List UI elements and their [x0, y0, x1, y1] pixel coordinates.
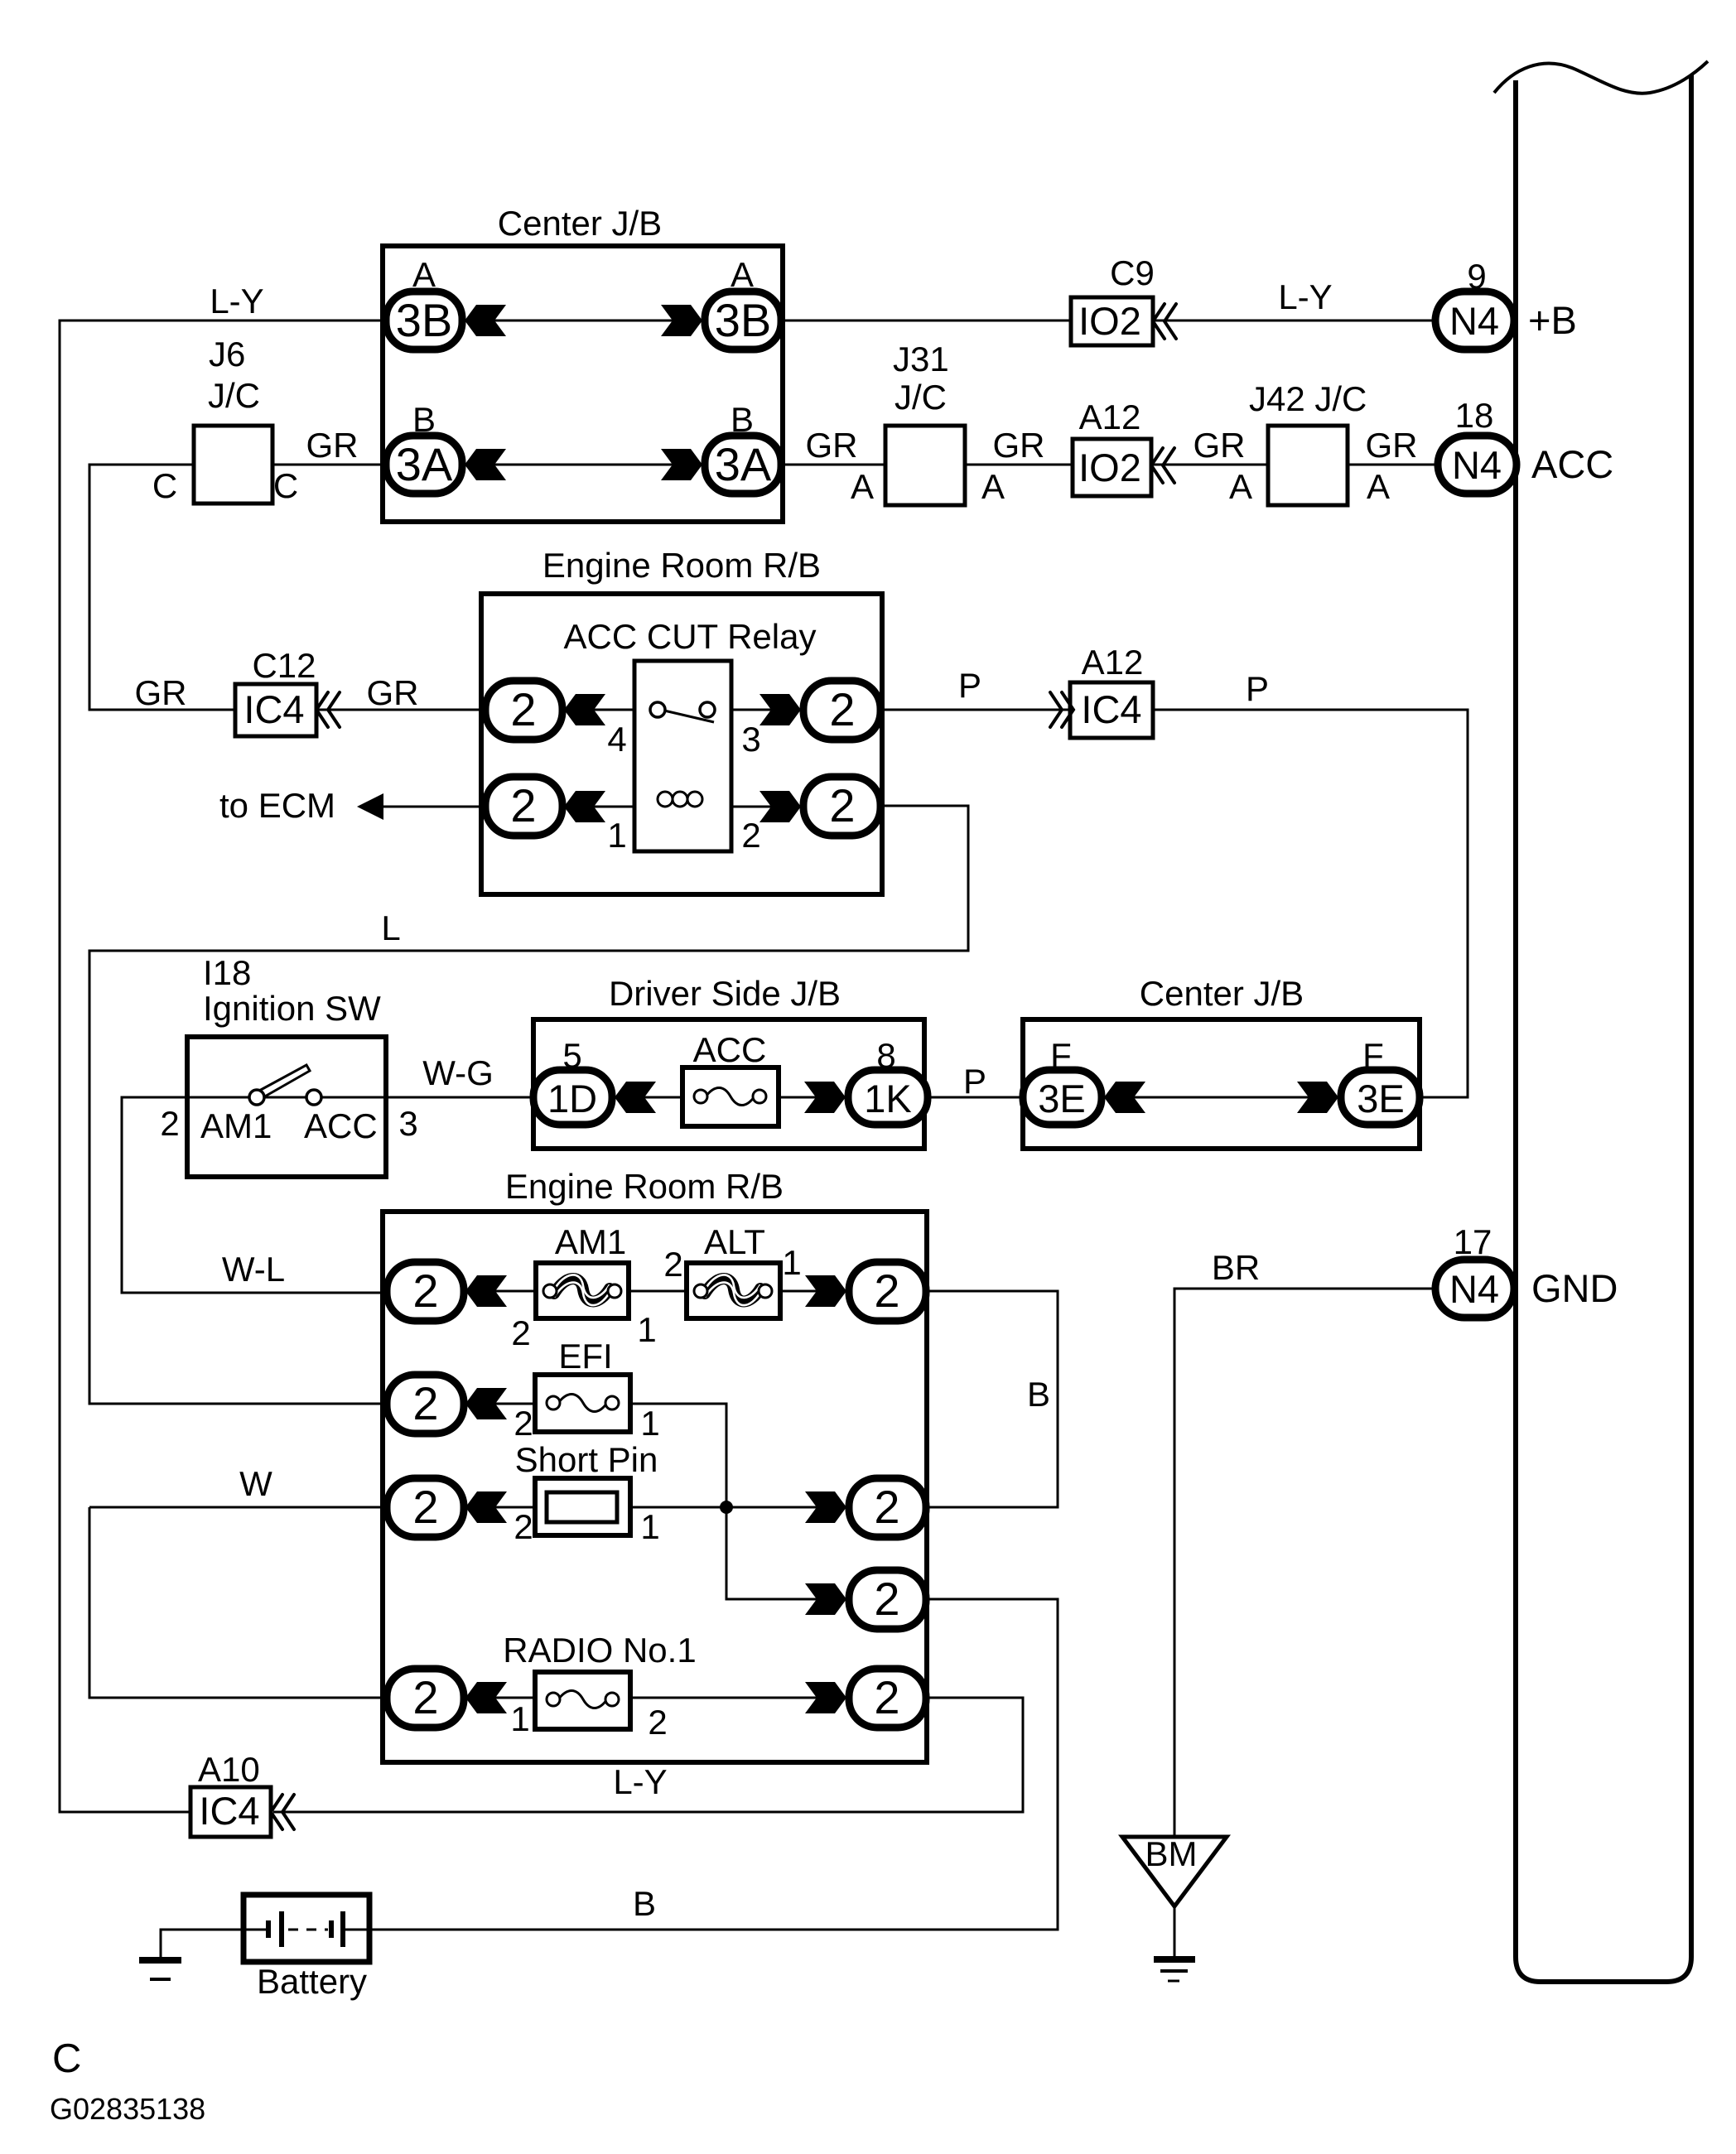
- svg-text:J31: J31: [893, 340, 949, 378]
- svg-text:J/C: J/C: [208, 376, 260, 415]
- svg-text:2: 2: [741, 816, 760, 855]
- svg-text:A12: A12: [1082, 643, 1144, 682]
- svg-text:GR: GR: [306, 426, 359, 465]
- svg-text:C12: C12: [252, 646, 316, 685]
- svg-text:17: 17: [1454, 1222, 1492, 1261]
- svg-text:B: B: [731, 400, 754, 439]
- svg-text:2: 2: [510, 683, 536, 735]
- svg-text:3: 3: [398, 1104, 417, 1143]
- svg-text:ALT: ALT: [704, 1222, 765, 1261]
- svg-text:2: 2: [648, 1703, 667, 1742]
- svg-text:C: C: [273, 466, 298, 505]
- svg-text:1: 1: [510, 1699, 529, 1738]
- svg-text:W-G: W-G: [422, 1053, 494, 1092]
- svg-text:C: C: [152, 466, 177, 505]
- svg-text:A: A: [981, 467, 1005, 506]
- svg-text:3B: 3B: [715, 294, 772, 346]
- svg-text:IO2: IO2: [1078, 446, 1141, 489]
- svg-text:4: 4: [607, 720, 626, 759]
- svg-text:+B: +B: [1528, 298, 1577, 342]
- svg-text:to ECM: to ECM: [219, 786, 335, 825]
- svg-text:1: 1: [637, 1310, 656, 1349]
- svg-text:Ignition SW: Ignition SW: [203, 989, 381, 1028]
- svg-text:1: 1: [640, 1404, 659, 1443]
- svg-text:P: P: [963, 1062, 986, 1101]
- svg-text:2: 2: [829, 683, 855, 735]
- svg-text:N4: N4: [1449, 299, 1499, 343]
- svg-text:3: 3: [741, 720, 760, 759]
- svg-text:IO2: IO2: [1078, 299, 1141, 343]
- svg-text:BM: BM: [1145, 1834, 1198, 1873]
- svg-text:AM1: AM1: [555, 1222, 626, 1261]
- svg-text:Battery: Battery: [257, 1962, 367, 2001]
- svg-text:BR: BR: [1212, 1248, 1260, 1287]
- svg-text:GR: GR: [993, 426, 1045, 465]
- svg-text:ACC: ACC: [304, 1106, 378, 1145]
- svg-text:L-Y: L-Y: [210, 282, 263, 320]
- svg-text:2: 2: [511, 1313, 530, 1352]
- svg-text:J42 J/C: J42 J/C: [1249, 379, 1367, 418]
- svg-text:A: A: [731, 255, 754, 294]
- svg-text:1K: 1K: [864, 1077, 912, 1120]
- svg-text:Driver Side J/B: Driver Side J/B: [609, 974, 841, 1013]
- svg-text:1: 1: [782, 1243, 801, 1282]
- svg-text:GR: GR: [1193, 426, 1246, 465]
- svg-text:2: 2: [874, 1265, 899, 1317]
- svg-text:1: 1: [607, 816, 626, 855]
- svg-text:Center J/B: Center J/B: [498, 204, 662, 243]
- svg-text:A12: A12: [1079, 398, 1141, 436]
- svg-text:2: 2: [412, 1377, 438, 1429]
- svg-text:P: P: [1246, 669, 1269, 708]
- svg-text:GND: GND: [1531, 1266, 1618, 1310]
- svg-text:2: 2: [663, 1245, 682, 1284]
- svg-text:P: P: [958, 666, 981, 705]
- svg-text:2: 2: [514, 1507, 533, 1546]
- svg-text:2: 2: [510, 779, 536, 831]
- svg-text:GR: GR: [1366, 426, 1418, 465]
- svg-text:ACC: ACC: [1531, 442, 1613, 486]
- svg-text:Engine Room R/B: Engine Room R/B: [542, 546, 821, 585]
- svg-text:IC4: IC4: [1081, 687, 1141, 731]
- svg-text:B: B: [1027, 1375, 1050, 1414]
- svg-text:IC4: IC4: [244, 687, 304, 731]
- svg-text:1: 1: [640, 1507, 659, 1546]
- svg-text:W: W: [239, 1464, 272, 1503]
- svg-text:B: B: [412, 400, 436, 439]
- svg-text:A: A: [1367, 467, 1390, 506]
- svg-text:2: 2: [874, 1481, 899, 1533]
- svg-text:G02835138: G02835138: [50, 2092, 205, 2126]
- svg-text:L-Y: L-Y: [1278, 277, 1332, 316]
- svg-text:2: 2: [514, 1404, 533, 1443]
- svg-text:A: A: [1229, 467, 1252, 506]
- svg-text:GR: GR: [135, 673, 187, 712]
- svg-text:N4: N4: [1449, 1267, 1499, 1311]
- svg-text:Engine Room R/B: Engine Room R/B: [505, 1167, 784, 1206]
- svg-text:3A: 3A: [396, 438, 453, 490]
- svg-text:2: 2: [874, 1671, 899, 1723]
- svg-text:A: A: [851, 467, 874, 506]
- svg-text:2: 2: [829, 779, 855, 831]
- svg-text:C: C: [52, 2036, 81, 2081]
- svg-text:GR: GR: [367, 673, 419, 712]
- svg-text:1D: 1D: [547, 1077, 597, 1120]
- svg-text:2: 2: [412, 1481, 438, 1533]
- svg-text:18: 18: [1455, 396, 1494, 435]
- svg-text:2: 2: [412, 1671, 438, 1723]
- svg-text:3E: 3E: [1038, 1077, 1086, 1120]
- svg-text:GR: GR: [806, 426, 858, 465]
- svg-text:J/C: J/C: [895, 378, 947, 417]
- svg-text:Center J/B: Center J/B: [1140, 974, 1304, 1013]
- svg-text:IC4: IC4: [199, 1789, 259, 1833]
- svg-text:3E: 3E: [1357, 1077, 1405, 1120]
- svg-text:Short Pin: Short Pin: [515, 1440, 658, 1479]
- svg-text:RADIO No.1: RADIO No.1: [503, 1631, 696, 1670]
- svg-text:I18: I18: [203, 953, 251, 992]
- svg-text:L: L: [381, 908, 400, 947]
- svg-text:W-L: W-L: [222, 1250, 285, 1289]
- svg-text:B: B: [633, 1884, 656, 1923]
- svg-text:3A: 3A: [715, 438, 772, 490]
- svg-text:A: A: [412, 255, 436, 294]
- svg-text:L-Y: L-Y: [613, 1762, 667, 1801]
- svg-text:9: 9: [1467, 257, 1486, 296]
- svg-text:ACC CUT Relay: ACC CUT Relay: [564, 617, 817, 656]
- svg-text:J6: J6: [209, 335, 245, 373]
- svg-text:AM1: AM1: [200, 1106, 272, 1145]
- svg-text:N4: N4: [1452, 443, 1502, 487]
- svg-text:2: 2: [874, 1573, 899, 1625]
- svg-text:ACC: ACC: [693, 1030, 767, 1069]
- svg-text:2: 2: [160, 1104, 179, 1143]
- svg-text:EFI: EFI: [558, 1337, 612, 1376]
- svg-text:C9: C9: [1110, 253, 1155, 292]
- svg-text:3B: 3B: [396, 294, 453, 346]
- svg-text:2: 2: [412, 1265, 438, 1317]
- svg-text:A10: A10: [198, 1750, 260, 1789]
